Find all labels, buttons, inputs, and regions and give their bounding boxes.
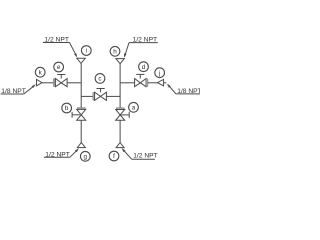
svg-text:1/2 NPT: 1/2 NPT — [133, 152, 158, 159]
svg-text:k: k — [39, 69, 43, 76]
svg-text:b: b — [65, 105, 69, 112]
svg-text:e: e — [57, 64, 61, 71]
svg-text:j: j — [158, 70, 160, 77]
svg-text:i: i — [86, 48, 87, 55]
svg-text:c: c — [98, 76, 101, 83]
svg-text:1/8 NPT: 1/8 NPT — [177, 88, 200, 95]
svg-text:g: g — [84, 154, 88, 161]
svg-text:a: a — [132, 105, 136, 112]
svg-text:f: f — [113, 153, 115, 160]
svg-text:d: d — [142, 64, 146, 71]
svg-text:h: h — [113, 49, 117, 56]
